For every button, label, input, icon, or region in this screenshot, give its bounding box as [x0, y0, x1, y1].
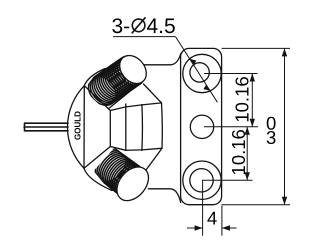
arrow up dim 10.16 lower — [245, 127, 250, 135]
upper connector threads — [83, 51, 151, 111]
lower connector threads — [89, 143, 153, 205]
svg-text:10.16: 10.16 — [228, 129, 249, 175]
hex boss right edge — [141, 105, 144, 151]
dimension line 30 — [284, 48, 286, 204]
extension line plate right edge (for 4) — [221, 206, 223, 236]
arrow leader lower (down-right) — [203, 85, 210, 91]
dimension line 4 left tail — [187, 227, 203, 229]
extension line middle hole — [204, 126, 258, 128]
arrow down dim 30 — [282, 197, 287, 205]
body front face edge (near-vertical) — [83, 86, 85, 169]
hex boss left edge — [109, 111, 111, 147]
hex boss middle edge — [125, 104, 127, 151]
edge neck to upper connector root — [144, 84, 162, 103]
chamfer lower-left — [84, 147, 110, 169]
arrow down dim 10.16 upper — [250, 119, 255, 127]
neck right edge — [161, 103, 164, 148]
upper connector lower silhouette — [109, 84, 139, 108]
extension line plate top — [222, 47, 290, 49]
arrow up dim 30 — [282, 48, 287, 56]
hole top inner — [190, 63, 209, 82]
mounting plate (side view rounded rect) — [181, 48, 222, 204]
body top transition to upper connector base — [84, 69, 105, 86]
extension line hole center (for 4) — [202, 180, 204, 236]
arrow left dim 4 — [222, 225, 230, 230]
dimension line 4 right tail — [222, 227, 237, 229]
chamfer upper-left — [84, 86, 110, 111]
dimension line 10.16 upper — [251, 74, 253, 127]
hole bottom outer — [183, 161, 221, 199]
upper connector face — [114, 50, 152, 89]
extension line bottom hole — [202, 179, 253, 181]
svg-text:10.16: 10.16 — [232, 76, 253, 122]
arrow leader upper (up-left) — [190, 59, 197, 65]
arrow down dim 10.16 lower — [245, 172, 250, 180]
hole top outer — [183, 54, 221, 92]
hole bottom inner — [190, 169, 213, 192]
body front arc (round body silhouette) — [67, 86, 84, 169]
leader line to top hole — [176, 37, 218, 103]
hex boss top facets — [110, 103, 161, 111]
extension line plate bottom — [222, 204, 290, 206]
diameter symbol — [132, 19, 145, 32]
top link line from connector to plate — [144, 54, 181, 65]
hole middle — [190, 115, 213, 138]
lower connector upper silhouette — [117, 150, 141, 169]
svg-text:4: 4 — [207, 207, 217, 228]
edge neck to lower connector root — [146, 148, 162, 170]
dimension line 10.16 lower — [246, 127, 248, 180]
svg-text:GOULD: GOULD — [73, 111, 82, 140]
leader underline 3-O4.5 — [113, 36, 176, 38]
wire (twin lead cable at left) — [24, 123, 68, 131]
bottom link line from connector to plate — [148, 189, 180, 203]
extension line top hole — [204, 73, 258, 75]
svg-text:3: 3 — [266, 127, 276, 148]
svg-text:4.5: 4.5 — [146, 15, 175, 38]
arrow right dim 4 — [195, 225, 203, 230]
hex boss bottom facets — [110, 147, 161, 151]
body bottom transition to lower connector base — [84, 168, 112, 190]
lower connector face — [111, 161, 155, 207]
svg-text:3-: 3- — [111, 15, 130, 38]
arrow up dim 10.16 upper — [250, 74, 255, 82]
